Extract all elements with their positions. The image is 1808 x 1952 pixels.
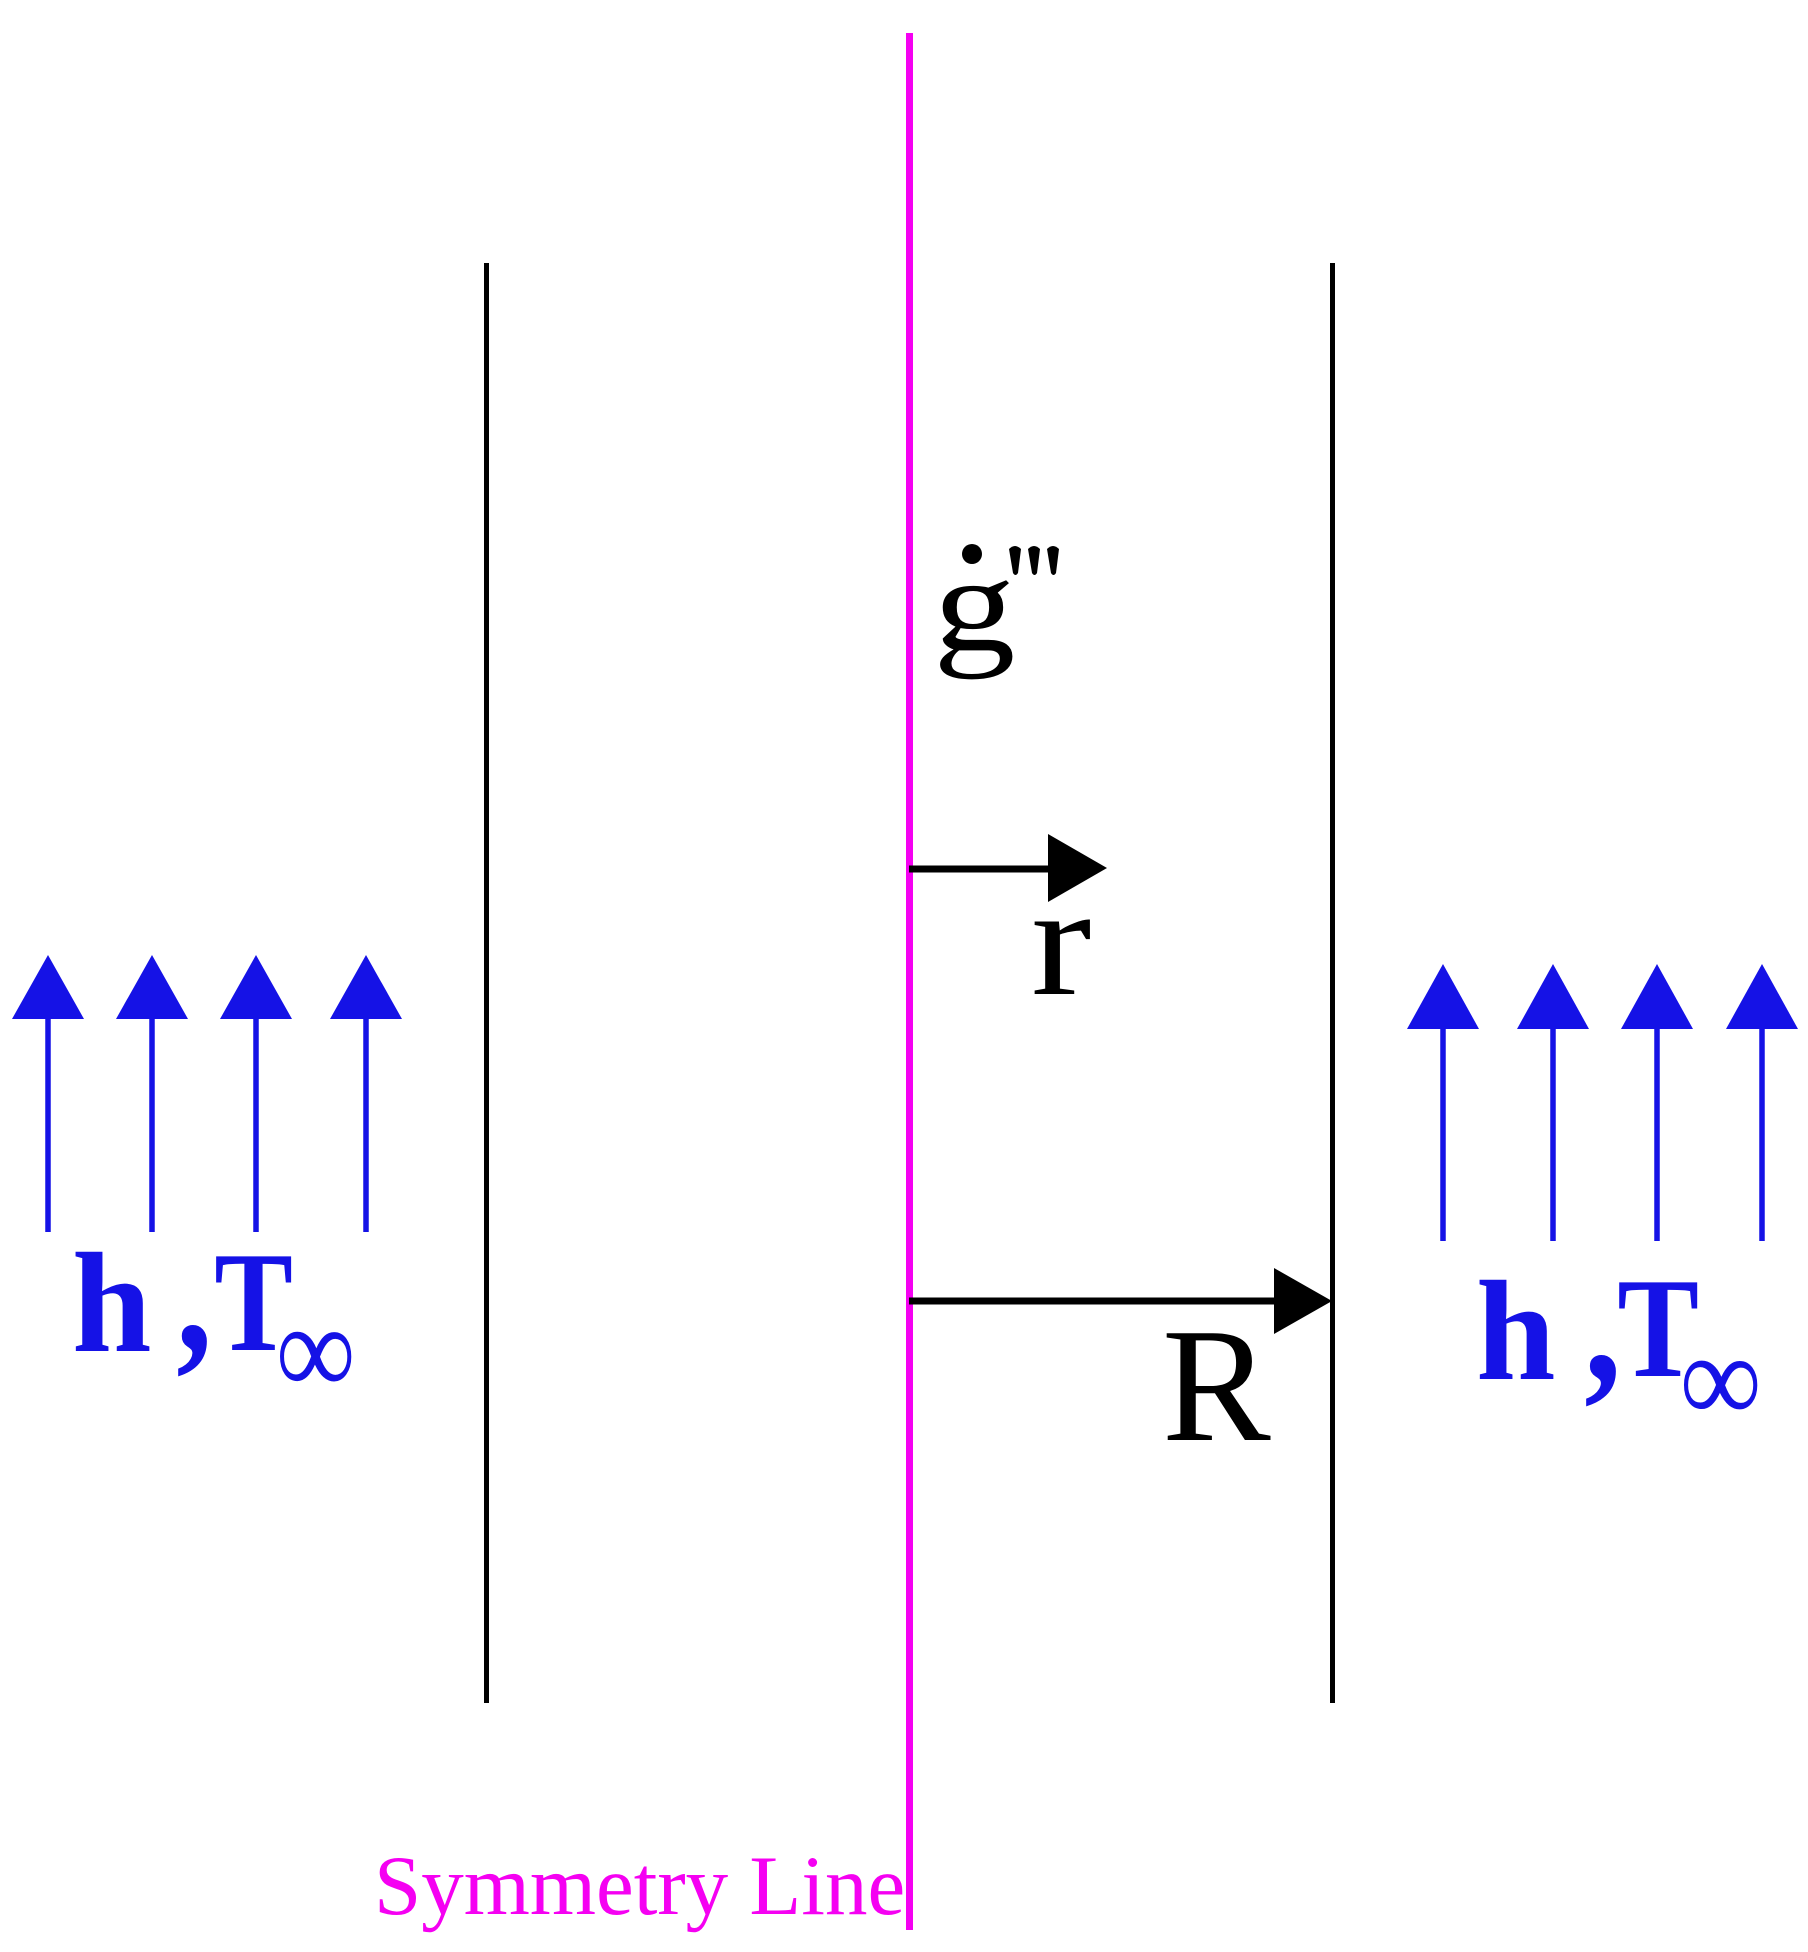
svg-text:,: , [176, 1200, 212, 1388]
svg-text:r: r [1031, 853, 1092, 1028]
svg-text:h: h [1476, 1252, 1556, 1410]
svg-text:R: R [1162, 1296, 1271, 1476]
svg-text:,: , [1584, 1228, 1621, 1417]
svg-text:∞: ∞ [277, 1278, 354, 1423]
svg-text:h: h [72, 1224, 152, 1382]
svg-text:∞: ∞ [1681, 1308, 1761, 1450]
svg-text:Symmetry Line: Symmetry Line [374, 1839, 905, 1933]
